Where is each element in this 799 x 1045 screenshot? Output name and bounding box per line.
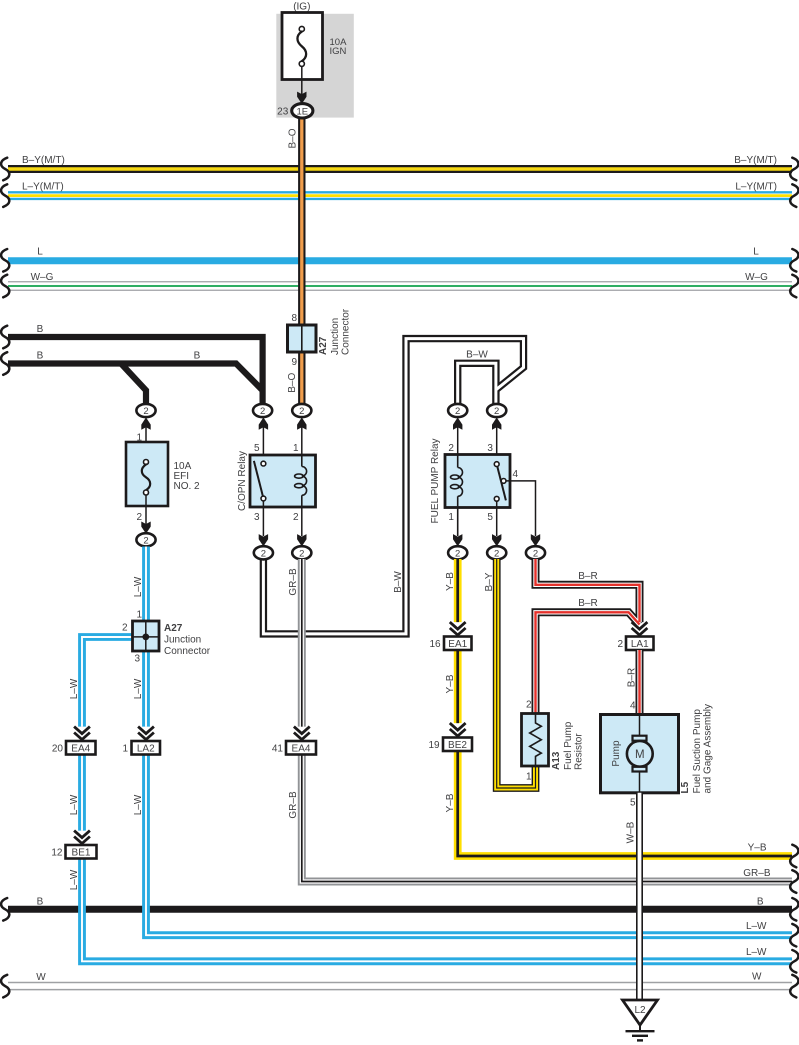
svg-text:B–W: B–W [466, 350, 488, 361]
svg-text:EA4: EA4 [292, 743, 311, 754]
svg-text:GR–B: GR–B [288, 568, 299, 596]
node oval 2 C/OPN pin3 [254, 546, 273, 559]
svg-text:5: 5 [487, 512, 493, 523]
svg-text:4: 4 [513, 469, 519, 480]
wire L-W fuse to junction A27 [142, 547, 150, 623]
svg-text:2: 2 [143, 535, 148, 546]
break symbol GR-B right [790, 870, 798, 893]
break symbol W-G left [1, 275, 9, 298]
svg-text:L–W: L–W [133, 794, 144, 815]
svg-text:2: 2 [455, 406, 460, 417]
svg-text:FUEL PUMP Relay: FUEL PUMP Relay [430, 438, 441, 523]
fuse 10A EFI NO.2 box [126, 442, 168, 506]
svg-text:1: 1 [293, 443, 299, 454]
connector box BE1 [66, 845, 97, 859]
wire inside pump [639, 715, 641, 736]
svg-text:Y–B: Y–B [748, 843, 767, 854]
svg-text:A13: A13 [551, 751, 562, 770]
C/OPN coil [301, 455, 303, 467]
svg-text:Junction: Junction [164, 635, 201, 646]
svg-text:2: 2 [617, 639, 623, 650]
svg-text:Y–B: Y–B [445, 572, 456, 591]
junction connector A27 (left) box [133, 621, 160, 651]
svg-text:BE1: BE1 [72, 847, 91, 858]
break symbol L left [1, 249, 9, 272]
wire L-W junction A27 left branch to EA4/BE1/bus [82, 637, 133, 727]
svg-text:and Gage Assembly: and Gage Assembly [703, 704, 714, 794]
node oval 2 (fuel pump relay pin3 feed) [487, 404, 506, 417]
svg-text:5: 5 [254, 443, 260, 454]
svg-text:Resistor: Resistor [574, 733, 585, 770]
wire B (lower bus) [8, 364, 263, 391]
svg-text:2: 2 [299, 406, 304, 417]
relay C/OPN box [250, 455, 316, 507]
wire C/OPN pin2 down [301, 507, 303, 536]
bus L-Y(M/T) [8, 191, 792, 200]
ground L2 triangle [623, 1000, 658, 1025]
svg-text:1: 1 [526, 772, 532, 783]
svg-text:NO. 2: NO. 2 [174, 481, 201, 492]
svg-text:12: 12 [51, 848, 63, 859]
svg-text:L–Y(M/T): L–Y(M/T) [22, 182, 64, 193]
svg-text:2: 2 [299, 548, 304, 559]
junction dot A27 [142, 634, 149, 641]
svg-text:20: 20 [52, 744, 64, 755]
svg-text:L–W: L–W [746, 921, 767, 932]
break symbol B lower [1, 352, 9, 375]
wire oval to fuel pump relay pin2 [457, 424, 459, 468]
fuse F1 element symbol [299, 26, 304, 31]
connector box EA1 [444, 637, 472, 651]
node oval 2 fuel pump pin4 [526, 546, 545, 559]
fuse F1 10A IGN box [282, 13, 323, 80]
wire C/OPN pin3 down [262, 501, 264, 536]
FUEL PUMP relay switch [497, 464, 506, 500]
svg-text:16: 16 [429, 639, 441, 650]
break symbol Y-B right [790, 845, 798, 868]
pump assembly L5 box [601, 715, 679, 793]
svg-text:B–W: B–W [393, 571, 404, 593]
svg-text:B–O: B–O [288, 128, 299, 148]
connector box BE2 [443, 738, 472, 752]
svg-text:L–W: L–W [69, 678, 80, 699]
svg-text:L–W: L–W [69, 794, 80, 815]
svg-text:2: 2 [526, 700, 532, 711]
svg-text:B: B [37, 324, 44, 335]
svg-text:L: L [753, 247, 759, 258]
wire B-O vertical from 1E to C/OPN relay [298, 112, 305, 404]
svg-text:C/OPN Relay: C/OPN Relay [237, 451, 248, 511]
svg-text:9: 9 [291, 357, 297, 368]
break symbol L-Y right [790, 184, 798, 207]
connector chevrons LA2 [138, 727, 154, 734]
svg-text:5: 5 [630, 798, 636, 809]
svg-text:2: 2 [293, 512, 299, 523]
svg-text:3: 3 [134, 654, 140, 665]
svg-text:Y–B: Y–B [445, 674, 456, 693]
pump motor M [633, 736, 647, 741]
wire GR-B from C/OPN pin2 to right bus [298, 559, 306, 727]
svg-text:Connector: Connector [341, 308, 352, 355]
ground symbol [639, 1025, 641, 1031]
break symbol B-Y left [1, 158, 9, 181]
node oval 2 fuel pump pin1 [448, 546, 467, 559]
svg-text:3: 3 [254, 512, 260, 523]
svg-text:B–Y(M/T): B–Y(M/T) [22, 155, 65, 166]
break symbol B bottom left [1, 898, 9, 921]
svg-text:Y–B: Y–B [445, 793, 456, 812]
svg-text:B–R: B–R [627, 668, 638, 687]
wire B branch to EFI fuse [121, 364, 146, 405]
svg-text:W: W [36, 972, 46, 983]
svg-text:B–R: B–R [578, 571, 597, 582]
break symbol L-W right 2 [790, 950, 798, 973]
connector chevrons BE1 [74, 831, 90, 838]
svg-text:41: 41 [272, 744, 284, 755]
svg-text:4: 4 [630, 701, 636, 712]
break symbol W right [790, 975, 798, 998]
svg-text:EA1: EA1 [448, 639, 467, 650]
svg-text:(IG): (IG) [293, 2, 310, 13]
break symbol B upper [1, 326, 9, 349]
svg-text:EA4: EA4 [71, 743, 90, 754]
svg-text:2: 2 [455, 548, 460, 559]
svg-text:2: 2 [260, 406, 265, 417]
node oval 2 (EFI fuse feed) [136, 404, 155, 417]
wire pin4 to oval [506, 481, 536, 536]
svg-text:2: 2 [136, 512, 142, 523]
wire B-W from C/OPN relay pin3 loop to fuel pump relay [263, 339, 523, 634]
break symbol L-W right 1 [790, 924, 798, 947]
svg-text:8: 8 [291, 313, 297, 324]
wire oval to C/OPN pin1 [301, 424, 303, 467]
svg-text:2: 2 [494, 548, 499, 559]
node oval 2 (C/OPN pin5 feed) [253, 404, 272, 417]
svg-text:19: 19 [428, 740, 440, 751]
svg-text:1: 1 [136, 610, 142, 621]
svg-text:1E: 1E [296, 106, 308, 117]
relay FUEL PUMP box [445, 455, 510, 508]
svg-text:1: 1 [448, 512, 454, 523]
svg-text:B: B [37, 351, 44, 362]
bus L [8, 257, 792, 264]
svg-text:L2: L2 [634, 1005, 646, 1016]
resistor A13 element [530, 714, 542, 767]
svg-text:GR–B: GR–B [288, 791, 299, 819]
connector box EA4 (20) [66, 741, 96, 755]
svg-text:Junction: Junction [330, 318, 341, 355]
svg-text:Pump: Pump [611, 740, 622, 767]
svg-text:Fuel Pump: Fuel Pump [563, 721, 574, 770]
svg-text:2: 2 [448, 443, 454, 454]
wire oval to C/OPN pin5 [262, 424, 264, 461]
bus B-Y(M/T) [8, 165, 792, 173]
svg-text:2: 2 [533, 548, 538, 559]
break symbol W-G right [790, 275, 798, 298]
svg-text:2: 2 [143, 406, 148, 417]
wire W-B pump to ground [636, 793, 643, 1000]
svg-text:Fuel Suction Pump: Fuel Suction Pump [692, 709, 703, 794]
wire oval to fuel pump relay pin3 [496, 424, 498, 462]
svg-text:W–B: W–B [626, 821, 637, 843]
wire Y-B from fuel pump relay pin1 to right bus [454, 559, 462, 622]
connector box LA1 [626, 637, 654, 651]
svg-text:2: 2 [494, 406, 499, 417]
svg-text:Connector: Connector [164, 646, 211, 657]
svg-text:LA1: LA1 [631, 639, 649, 650]
svg-text:BE2: BE2 [448, 740, 467, 751]
svg-text:A27: A27 [318, 336, 329, 355]
wire B-R from fuel pump relay pin4 to LA1 [536, 559, 640, 622]
svg-text:23: 23 [277, 107, 289, 118]
node oval 2 (C/OPN pin1 feed, B-O) [292, 404, 311, 417]
connector oval 23(1E) [292, 104, 313, 118]
wire EFI fuse to oval [145, 495, 147, 534]
svg-text:L: L [37, 247, 43, 258]
svg-text:3: 3 [487, 443, 493, 454]
wire fuse to connector 1E [301, 66, 303, 96]
svg-text:W–G: W–G [745, 272, 768, 283]
bus W-G [8, 281, 792, 291]
svg-text:L–W: L–W [69, 869, 80, 890]
svg-text:L–W: L–W [133, 678, 144, 699]
svg-text:W: W [752, 972, 762, 983]
connector chevrons LA1 [632, 622, 648, 629]
wire oval to EFI fuse [145, 424, 147, 442]
svg-text:1: 1 [122, 744, 128, 755]
svg-text:B–Y(M/T): B–Y(M/T) [734, 155, 777, 166]
break symbol L-Y left [1, 184, 9, 207]
break symbol L right [790, 249, 798, 272]
break symbol B bottom right [790, 898, 798, 921]
svg-text:B–R: B–R [578, 598, 597, 609]
node oval 2 (fuel pump relay pin2 feed) [448, 404, 467, 417]
gray background block (1E junction block) [276, 14, 354, 118]
resistor A13 box [522, 714, 549, 767]
svg-text:2: 2 [122, 623, 128, 634]
wire B-R branch to resistor A13 [536, 612, 640, 713]
C/OPN switch contacts [254, 461, 264, 498]
connector box LA2 [132, 741, 161, 755]
svg-text:L–Y(M/T): L–Y(M/T) [735, 182, 777, 193]
svg-text:W–G: W–G [31, 272, 54, 283]
wire L-W junction A27 down to LA2/bus [142, 650, 150, 727]
break symbol W left [1, 975, 9, 998]
junction connector A27 (top) box [288, 325, 317, 352]
wire B-Y from fuel pump relay pin5 to resistor [497, 559, 536, 788]
break symbol B-Y right [790, 158, 798, 181]
svg-text:L–W: L–W [133, 576, 144, 597]
connector chevrons EA4-41 [294, 727, 310, 734]
svg-text:GR–B: GR–B [743, 868, 771, 879]
connector box EA4 (41) [286, 741, 316, 755]
svg-text:B–O: B–O [287, 372, 298, 392]
bus W bottom [8, 982, 792, 991]
svg-text:2: 2 [261, 548, 266, 559]
svg-text:LA2: LA2 [137, 743, 155, 754]
wire B (upper bus) [8, 337, 263, 404]
node oval 2 below EFI fuse [136, 533, 155, 546]
svg-text:B: B [757, 896, 764, 907]
svg-text:B–Y: B–Y [484, 572, 495, 591]
node oval 2 C/OPN pin2 [292, 546, 311, 559]
svg-text:A27: A27 [164, 623, 183, 634]
node oval 2 fuel pump pin5 [487, 546, 506, 559]
bus B bottom [8, 906, 792, 913]
svg-text:M: M [635, 749, 645, 761]
svg-text:L–W: L–W [746, 947, 767, 958]
connector chevrons EA4-20 [74, 727, 90, 734]
fuse element symbol EFI [144, 460, 149, 465]
svg-text:IGN: IGN [330, 46, 347, 57]
svg-text:B: B [37, 896, 44, 907]
wire pin5 down [496, 501, 498, 536]
svg-text:L5: L5 [680, 781, 691, 793]
wire B-R LA1 to pump [636, 650, 644, 714]
connector chevrons BE2 [450, 723, 466, 730]
connector chevrons EA1 [450, 622, 466, 629]
svg-text:B: B [194, 351, 201, 362]
FUEL PUMP relay coil [457, 455, 459, 468]
